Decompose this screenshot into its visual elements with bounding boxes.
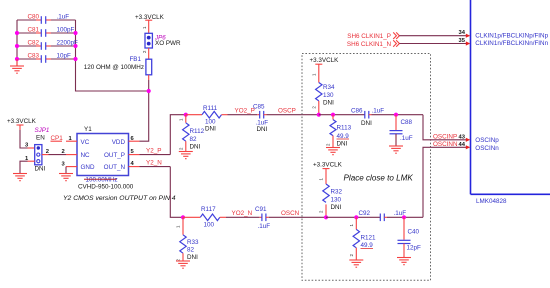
svg-text:100.00MHz: 100.00MHz bbox=[86, 177, 118, 184]
svg-text:10pF: 10pF bbox=[57, 53, 72, 60]
wire SJP1 pin1 to ground bbox=[20, 161, 35, 173]
ferrite bead FB1 120 OHM @ 100MHz bbox=[84, 56, 152, 75]
net OSCINP bbox=[433, 133, 457, 140]
wire right bus of bypass caps bbox=[76, 20, 149, 91]
pin 34 CLKIN1p bbox=[466, 33, 549, 40]
power +3.3VCLK (XO supply) bbox=[135, 14, 165, 33]
svg-text:SJP1: SJP1 bbox=[35, 127, 50, 134]
capacitor C81 bbox=[17, 27, 76, 37]
svg-text:XO PWR: XO PWR bbox=[155, 40, 181, 47]
svg-text:.1uF: .1uF bbox=[400, 135, 413, 142]
svg-text:C91: C91 bbox=[255, 206, 267, 213]
pin number 2 SJP1 bbox=[46, 149, 49, 155]
capacitor C82 bbox=[17, 40, 78, 50]
svg-text:DNI: DNI bbox=[331, 204, 342, 211]
svg-text:OUT_N: OUT_N bbox=[104, 164, 126, 171]
wire C91 to dashed box bbox=[269, 216, 326, 218]
net YO2_N bbox=[232, 210, 253, 217]
pin number 4 Y1 bbox=[131, 161, 135, 167]
off-page connector SH6 CLKIN1_N bbox=[347, 40, 466, 48]
svg-text:R113: R113 bbox=[337, 124, 352, 131]
ground (R112) bbox=[179, 152, 193, 159]
svg-text:C85: C85 bbox=[253, 104, 265, 111]
wire SJP1 pin2 to Y1 pin2 bbox=[42, 154, 66, 156]
wire R117 to C91 bbox=[226, 216, 259, 218]
svg-text:R32: R32 bbox=[331, 189, 343, 196]
svg-text:DNI: DNI bbox=[257, 126, 268, 133]
wire FB1 to VDD rail bbox=[140, 75, 149, 141]
svg-text:130: 130 bbox=[331, 196, 342, 203]
junction C40 bbox=[402, 215, 406, 219]
svg-text:Y2_P: Y2_P bbox=[146, 147, 161, 154]
svg-text:100: 100 bbox=[205, 118, 216, 125]
resistor R113 49.9 DNI bbox=[326, 115, 352, 148]
svg-text:SH6 CLKIN1_P: SH6 CLKIN1_P bbox=[347, 33, 391, 40]
svg-text:.1uF: .1uF bbox=[372, 108, 385, 115]
svg-text:C92: C92 bbox=[359, 210, 371, 217]
ground (C40) bbox=[397, 258, 411, 265]
capacitor C86 .1uF DNI bbox=[351, 108, 384, 127]
pin number 44 bbox=[459, 142, 466, 148]
svg-text:OSCP: OSCP bbox=[278, 108, 296, 115]
svg-text:GND: GND bbox=[81, 164, 95, 171]
svg-text:Y1: Y1 bbox=[84, 126, 92, 133]
svg-text:DNI: DNI bbox=[337, 140, 348, 147]
svg-text:OSCINN: OSCINN bbox=[433, 141, 458, 148]
IC U? LMK04828 block bbox=[471, 0, 550, 205]
svg-text:2: 2 bbox=[62, 149, 65, 155]
svg-text:C88: C88 bbox=[401, 119, 413, 126]
svg-text:35: 35 bbox=[459, 38, 466, 44]
svg-text:44: 44 bbox=[459, 142, 466, 148]
ground (SJP1) bbox=[13, 174, 27, 181]
svg-text:C83: C83 bbox=[28, 53, 40, 60]
off-page connector SH6 CLKIN1_P bbox=[347, 32, 466, 40]
svg-text:R112: R112 bbox=[190, 128, 205, 135]
capacitor C92 .1uF bbox=[359, 210, 407, 221]
junction R33 bbox=[181, 215, 185, 219]
capacitor C80 bbox=[17, 14, 76, 24]
svg-text:+3.3VCLK: +3.3VCLK bbox=[310, 57, 340, 64]
pin number 3 Y1 bbox=[62, 161, 66, 167]
resistor R117 100 bbox=[183, 206, 226, 228]
jumper SJP1 EN bbox=[35, 127, 50, 172]
dashed placement box bbox=[302, 54, 431, 281]
svg-text:R111: R111 bbox=[203, 105, 218, 112]
svg-text:CLKIN1p/FBCLKINp/FINp: CLKIN1p/FBCLKINp/FINp bbox=[475, 33, 548, 40]
resistor R34 130 DNI bbox=[311, 70, 335, 115]
value CVHD-950-100.000 bbox=[78, 184, 134, 191]
pin number 2 Y1 bbox=[62, 149, 65, 155]
net OSCN bbox=[281, 210, 300, 217]
power +3.3VCLK (R32) bbox=[313, 161, 343, 174]
svg-text:OSCINP: OSCINP bbox=[433, 133, 457, 140]
wire left bus of bypass caps bbox=[16, 20, 18, 66]
svg-text:+3.3VCLK: +3.3VCLK bbox=[313, 161, 343, 168]
wire Y2_P riser bbox=[170, 115, 186, 155]
svg-text:NC: NC bbox=[81, 152, 91, 159]
pin number 3 SJP1 bbox=[25, 143, 29, 149]
resistor R111 100 DNI bbox=[186, 105, 228, 132]
resistor R32 130 DNI bbox=[319, 174, 343, 217]
pin number 1 SJP1 bbox=[25, 156, 29, 162]
note: Y2 CMOS version OUTPUT on PIN 4 bbox=[63, 195, 176, 202]
svg-text:R121: R121 bbox=[361, 235, 377, 242]
ground (bypass caps) bbox=[10, 59, 24, 73]
pin 2 label JP6 bbox=[142, 50, 147, 53]
svg-text:LMK04828: LMK04828 bbox=[476, 198, 507, 205]
svg-text:DNI: DNI bbox=[187, 254, 198, 261]
power +3.3VCLK (R34) bbox=[310, 57, 340, 70]
svg-text:DNI: DNI bbox=[35, 166, 46, 173]
pin 1 label JP6 bbox=[142, 26, 147, 29]
pin 35 CLKIN1n bbox=[466, 40, 549, 47]
svg-text:VC: VC bbox=[81, 139, 90, 146]
svg-text:DNI: DNI bbox=[205, 126, 216, 133]
wire OSCP to pin 43 bbox=[423, 115, 466, 140]
capacitor C40 12pF bbox=[398, 217, 422, 257]
wire R111 to C85 bbox=[228, 114, 258, 116]
svg-text:VDD: VDD bbox=[112, 139, 126, 146]
svg-text:82: 82 bbox=[190, 136, 198, 143]
ground (C88) bbox=[389, 146, 403, 153]
capacitor C91 .1uF bbox=[255, 206, 270, 230]
pin number 1 Y1 bbox=[69, 136, 73, 142]
pin number 35 bbox=[459, 38, 466, 44]
svg-text:.1uF: .1uF bbox=[258, 223, 271, 230]
junction R112 bbox=[184, 113, 188, 117]
net Y2_N bbox=[140, 160, 171, 167]
junction R121 bbox=[354, 215, 358, 219]
wire OSCN inside box bbox=[326, 216, 380, 218]
net YO2_P bbox=[235, 108, 255, 115]
net OSCP bbox=[278, 108, 296, 115]
svg-text:DNI: DNI bbox=[361, 120, 372, 127]
jumper JP6 XO PWR bbox=[145, 33, 181, 48]
svg-text:C86: C86 bbox=[351, 108, 363, 115]
svg-text:100pF: 100pF bbox=[57, 27, 75, 34]
svg-text:43: 43 bbox=[459, 134, 466, 140]
svg-text:R117: R117 bbox=[201, 206, 216, 213]
pin number 5 Y1 bbox=[131, 149, 135, 155]
svg-text:DNI: DNI bbox=[190, 143, 201, 150]
power +3.3VCLK (SJP1) bbox=[7, 118, 37, 130]
junction dots on cap buses bbox=[15, 31, 78, 61]
resistor R33 82 DNI bbox=[176, 217, 200, 261]
svg-text:CLKIN1n/FBCLKINn/FINn: CLKIN1n/FBCLKINn/FINn bbox=[475, 40, 548, 47]
wire C86 to C88 bbox=[372, 114, 424, 116]
svg-text:DNI: DNI bbox=[323, 99, 334, 106]
wire OSCP inside box bbox=[319, 114, 365, 116]
junction R113 bbox=[331, 113, 335, 117]
pin 43 OSCINp bbox=[466, 137, 499, 144]
net OSCINN bbox=[433, 141, 458, 148]
svg-text:EN: EN bbox=[36, 135, 45, 142]
wire power to SJP1 pin 3 bbox=[20, 130, 35, 148]
svg-text:C82: C82 bbox=[28, 40, 40, 47]
svg-text:130: 130 bbox=[323, 92, 334, 99]
svg-text:.1uF: .1uF bbox=[57, 14, 70, 21]
svg-text:Place close to LMK: Place close to LMK bbox=[344, 174, 414, 183]
svg-text:Y2_N: Y2_N bbox=[146, 160, 162, 167]
net Y2_P bbox=[140, 147, 171, 154]
wire JP6 to FB1 bbox=[148, 48, 150, 59]
pin number 34 bbox=[459, 30, 466, 36]
svg-text:C81: C81 bbox=[28, 27, 40, 34]
svg-text:120 OHM @ 100MHz: 120 OHM @ 100MHz bbox=[84, 64, 144, 71]
svg-text:34: 34 bbox=[459, 30, 466, 36]
wire C92 to riser bbox=[387, 216, 423, 218]
junction C88 bbox=[394, 113, 398, 117]
wire C85 to dashed box bbox=[267, 114, 319, 116]
svg-text:SH6 CLKIN1_N: SH6 CLKIN1_N bbox=[347, 41, 392, 48]
junction R34/OSCP bbox=[317, 113, 321, 117]
pin number 43 bbox=[459, 134, 466, 140]
ground (R121) bbox=[349, 260, 363, 267]
svg-text:YO2_N: YO2_N bbox=[232, 210, 253, 217]
svg-text:12pF: 12pF bbox=[407, 244, 422, 251]
svg-text:CVHD-950-100.000: CVHD-950-100.000 bbox=[78, 184, 134, 191]
ground (Y1 GND) bbox=[59, 174, 73, 181]
pin 44 OSCINn bbox=[466, 145, 499, 152]
svg-text:OUT_P: OUT_P bbox=[104, 152, 125, 159]
svg-text:OSCINp: OSCINp bbox=[475, 137, 499, 144]
wire OSCN to pin 44 bbox=[423, 147, 466, 217]
capacitor C83 bbox=[17, 53, 76, 63]
svg-text:82: 82 bbox=[187, 247, 195, 254]
svg-text:YO2_P: YO2_P bbox=[235, 108, 255, 115]
svg-text:OSCINn: OSCINn bbox=[475, 145, 499, 152]
wire Y1 GND to ground bbox=[65, 167, 67, 174]
junction R32/OSCN bbox=[324, 215, 328, 219]
pin number 6 Y1 bbox=[131, 136, 135, 142]
junction FB1/bypass bus bbox=[147, 89, 151, 93]
svg-text:R33: R33 bbox=[187, 239, 199, 246]
capacitor C85 .1uF DNI bbox=[253, 104, 268, 134]
svg-text:C80: C80 bbox=[28, 14, 40, 21]
svg-text:Y2 CMOS version OUTPUT on PIN: Y2 CMOS version OUTPUT on PIN 4 bbox=[63, 195, 176, 202]
svg-text:100: 100 bbox=[204, 221, 215, 228]
node CP1 bbox=[51, 135, 64, 142]
note: Place close to LMK bbox=[344, 174, 414, 183]
svg-text:C40: C40 bbox=[408, 228, 420, 235]
wire Y2_N riser bbox=[170, 167, 183, 218]
capacitor C88 .1uF bbox=[390, 115, 413, 146]
resistor R121 49.9 bbox=[349, 217, 376, 260]
svg-text:OSCN: OSCN bbox=[281, 210, 300, 217]
resistor R112 82 DNI bbox=[179, 115, 205, 152]
value 100.00MHz (struck through) bbox=[84, 177, 118, 184]
svg-text:FB1: FB1 bbox=[129, 56, 141, 63]
svg-text:R34: R34 bbox=[323, 84, 335, 91]
ground (R33) bbox=[176, 261, 190, 268]
oscillator Y1 CVHD-950-100.000 bbox=[66, 126, 140, 176]
svg-text:+3.3VCLK: +3.3VCLK bbox=[7, 118, 37, 125]
ground (R113) bbox=[326, 148, 340, 155]
